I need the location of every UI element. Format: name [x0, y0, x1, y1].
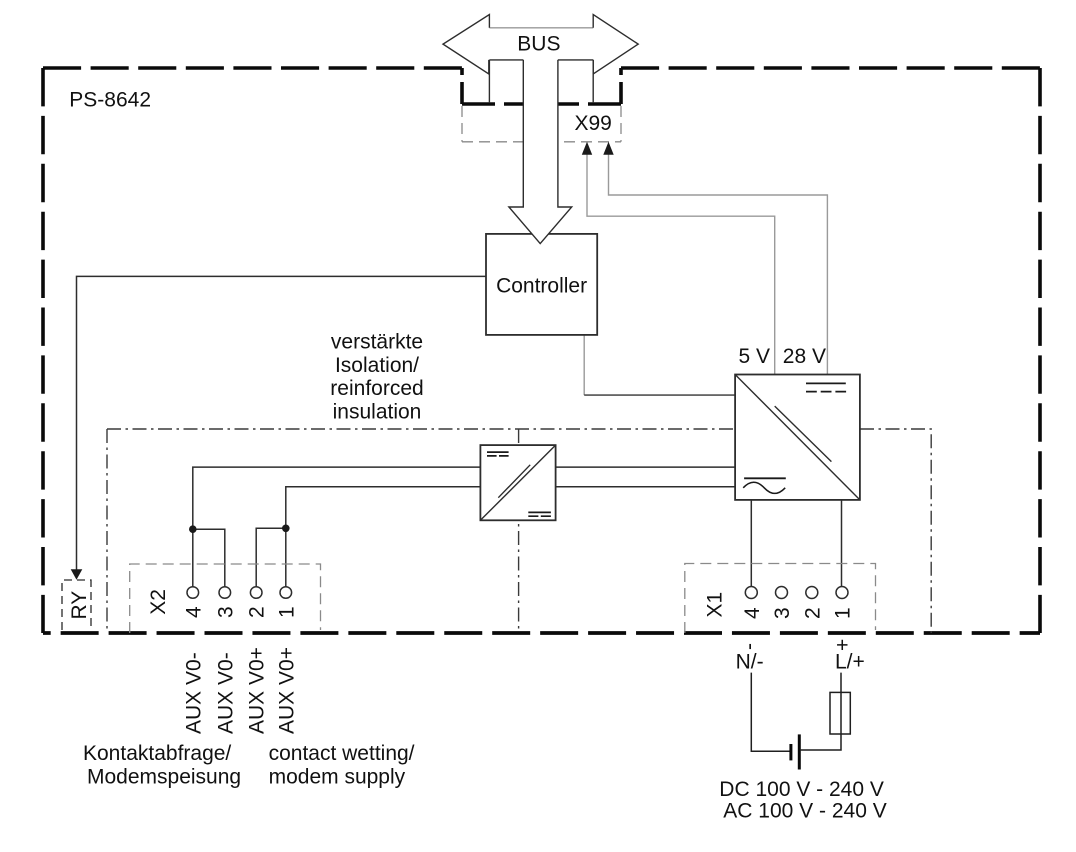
op block: Controller U1: [486, 234, 597, 335]
svg-text:4: 4: [741, 607, 764, 619]
svg-text:Controller: Controller: [496, 274, 587, 297]
BUS arrow left head: [443, 15, 489, 74]
small converter diagonal: [480, 445, 555, 520]
connector X1 dashed box: [685, 564, 876, 634]
svg-text:contact wetting/: contact wetting/: [269, 742, 415, 765]
enclosure border notch horizontal (X99 seat): [462, 102, 621, 106]
BUS up-stub right wall: [592, 60, 594, 103]
svg-text:2: 2: [246, 606, 269, 618]
enclosure border notch left vertical: [460, 68, 464, 104]
svg-text:1: 1: [275, 606, 298, 618]
svg-text:BUS: BUS: [517, 33, 560, 56]
wire: X1 pin4 (N) down to battery: [751, 673, 789, 752]
svg-text:PS-8642: PS-8642: [69, 88, 151, 111]
svg-text:-: -: [738, 643, 761, 650]
connector X99 dashed box: [462, 106, 621, 142]
svg-text:reinforced: reinforced: [330, 377, 423, 400]
enclosure border top-right segment: [621, 66, 1040, 70]
svg-text:Isolation/: Isolation/: [335, 354, 419, 377]
main converter AC symbol bottom-left: overline: [744, 477, 786, 479]
svg-text:+: +: [832, 639, 855, 651]
small converter parallel tick: [498, 465, 530, 498]
enclosure border notch right vertical: [619, 68, 623, 104]
svg-text:DC 100 V - 240 V: DC 100 V - 240 V: [719, 778, 884, 801]
svg-text:28 V: 28 V: [783, 345, 826, 368]
X1 pin 4 circle: [745, 587, 757, 599]
BUS down-shaft outline with hollow arrowhead: [509, 60, 572, 244]
wire: converter to X1 pin 4: [750, 500, 752, 587]
svg-text:N/-: N/-: [736, 651, 764, 674]
DC/DC converter (small, reinforced insulation) body: [480, 445, 555, 520]
insulation boundary dash-dot left vertical: [106, 429, 108, 633]
insulation boundary dash-dot right segment and right vertical: [860, 429, 931, 633]
wire: X1 pin1 (L) down through fuse to battery: [801, 673, 841, 750]
insulation boundary dash-dot top horizontal: [107, 428, 735, 430]
svg-text:verstärkte: verstärkte: [331, 331, 423, 354]
svg-text:AUX V0-: AUX V0-: [214, 652, 237, 734]
main converter parallel tick: [775, 406, 832, 462]
insulation boundary dash-dot middle vertical through DC/DC converter: [518, 429, 520, 633]
junction node on pin 1 wire: [282, 525, 290, 533]
junction node on pin 4 wire: [189, 525, 197, 533]
X2 pin 3 circle: [219, 587, 231, 599]
wire: branch pins 1-2: [256, 528, 286, 586]
wire: X2 pin 1 up and across to DC/DC converter: [286, 487, 735, 587]
small converter DC symbol top-left: [487, 451, 509, 453]
enclosure border left side: [41, 68, 45, 633]
arrowhead into RY: [71, 569, 83, 579]
svg-text:insulation: insulation: [333, 400, 422, 423]
main converter AC symbol sine wave: [743, 482, 785, 493]
X1 pin 3 circle: [776, 587, 788, 599]
fuse F1: [830, 692, 850, 734]
X2 pin 2 circle: [250, 587, 262, 599]
wire: branch pins 4-3: [193, 529, 225, 587]
svg-text:4: 4: [182, 606, 205, 618]
wire: controller down to power converter: [583, 335, 585, 395]
wire: controller to RY relay output: [77, 276, 487, 569]
main converter diagonal: [735, 375, 860, 500]
feedback wire 28V to X99 (right arrow): [609, 154, 828, 375]
svg-text:3: 3: [214, 606, 237, 618]
svg-text:2: 2: [801, 607, 824, 619]
svg-text:AC 100 V - 240 V: AC 100 V - 240 V: [723, 800, 886, 823]
enclosure border bottom side: [43, 631, 1040, 635]
X2 pin 4 circle: [187, 587, 199, 599]
svg-text:Modemspeisung: Modemspeisung: [87, 765, 241, 788]
arrowhead 28V feedback: [603, 142, 613, 155]
battery negative plate (short): [789, 744, 792, 760]
feedback wire 5V to X99 (left arrow): [587, 154, 775, 375]
BUS up-stub left wall: [488, 60, 490, 103]
svg-text:X1: X1: [704, 592, 727, 618]
arrowhead 5V feedback: [582, 142, 592, 155]
BUS double arrow: gray inner top edge: [489, 27, 593, 29]
svg-text:AUX V0-: AUX V0-: [182, 652, 205, 734]
BUS arrow body bottom edges: [489, 59, 593, 61]
X1 pin 1 circle: [836, 587, 848, 599]
battery positive plate (long): [798, 734, 801, 769]
X1 pin 2 circle: [806, 587, 818, 599]
svg-text:5 V: 5 V: [738, 345, 770, 368]
svg-text:3: 3: [771, 607, 794, 619]
BUS arrow right head: [593, 15, 638, 74]
enclosure PS-8642 outer dashed border: top-left segment: [43, 66, 462, 70]
svg-text:modem supply: modem supply: [269, 765, 406, 788]
svg-text:RY: RY: [68, 591, 91, 620]
wire: converter to X1 pin 1: [841, 500, 843, 587]
BUS down-shaft white fill: [509, 60, 572, 244]
connector X2 dashed box: [130, 564, 321, 633]
main converter DC symbol top-right: [806, 382, 846, 384]
enclosure border right side: [1038, 68, 1042, 633]
svg-text:X99: X99: [575, 112, 612, 135]
X2 pin 1 circle: [280, 587, 292, 599]
svg-text:AUX V0+: AUX V0+: [275, 647, 298, 734]
svg-text:Kontaktabfrage/: Kontaktabfrage/: [83, 742, 231, 765]
small converter DC symbol bottom-right: [528, 511, 551, 513]
relay contact RY dashed box: [62, 580, 91, 630]
svg-text:AUX V0+: AUX V0+: [246, 647, 269, 734]
svg-text:L/+: L/+: [835, 651, 865, 674]
svg-text:X2: X2: [147, 589, 170, 615]
svg-text:1: 1: [832, 607, 855, 619]
AC/DC power converter (main) body: [735, 375, 860, 500]
wire: X2 pin 4 up and across to DC/DC converter: [193, 467, 735, 587]
